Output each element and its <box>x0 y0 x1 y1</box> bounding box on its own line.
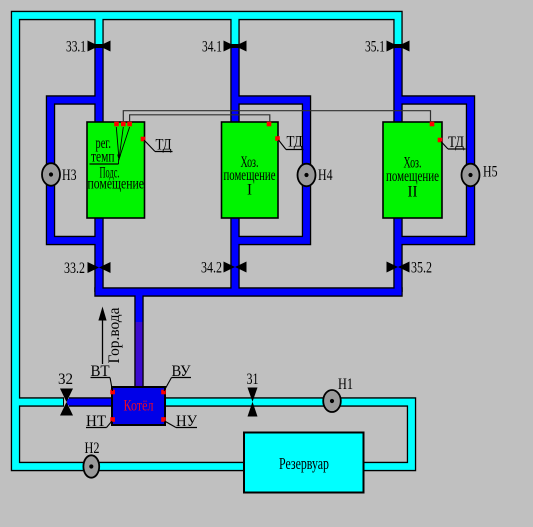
sensor label TD room 3 <box>441 134 466 151</box>
pump H3 <box>42 163 77 186</box>
svg-text:35.1: 35.1 <box>365 39 385 56</box>
pump H1 <box>323 376 353 412</box>
svg-text:32: 32 <box>58 371 73 388</box>
wire: main cyan supply pipe <box>16 16 399 467</box>
valve 35.1 <box>387 41 410 52</box>
svg-text:помещение: помещение <box>386 168 439 185</box>
cyan pipes fill <box>16 14 412 467</box>
wire outline: boiler feed connector <box>134 292 143 390</box>
wire: boiler feed upper blue <box>136 293 143 322</box>
wire outline: loop 2 <box>235 100 307 241</box>
label BU <box>164 363 191 391</box>
wire outline: branch 1 drop <box>94 16 103 47</box>
svg-text:Котёл: Котёл <box>124 398 154 415</box>
wire outline: loop 3 <box>398 100 471 241</box>
pump H2 <box>83 440 99 478</box>
blue pipes fill <box>51 48 471 402</box>
svg-text:I: I <box>247 182 252 199</box>
label HU <box>165 413 198 430</box>
svg-text:Гор.вода: Гор.вода <box>106 308 123 364</box>
svg-text:33.2: 33.2 <box>64 260 85 277</box>
svg-text:31: 31 <box>247 371 259 388</box>
wire outline: main cyan supply pipe run <box>16 16 399 467</box>
svg-text:33.1: 33.1 <box>66 39 86 56</box>
valve 34.1 <box>224 41 247 52</box>
svg-text:ТД: ТД <box>287 134 303 151</box>
wire outline: branch 1 return <box>94 46 103 292</box>
wire outline: valve32 to boiler <box>69 397 112 406</box>
pipe outlines (black pass) <box>16 16 471 467</box>
svg-text:ТД: ТД <box>156 137 172 154</box>
arrowhead of regulator pointer <box>117 155 121 162</box>
label HT <box>86 413 112 430</box>
wire: valve32 to boiler blue <box>67 399 113 406</box>
valve 34.2 <box>224 262 247 273</box>
wire: branch 2 cyan drop <box>232 14 239 44</box>
valve 31 (vertical) <box>248 388 258 417</box>
wire: boiler feed lower purple <box>136 322 143 389</box>
wire outline: valve 32 line <box>16 397 65 406</box>
sensor dots room 3 <box>430 122 443 143</box>
valve 32 (vertical) <box>60 389 73 416</box>
wire: loop 1 blue <box>51 100 102 241</box>
label BT <box>91 363 113 391</box>
wire outline: branch 2 return <box>230 46 239 292</box>
wire: valve 32 cyan line <box>16 399 64 406</box>
regulator fan arrows to sensors <box>116 127 129 164</box>
wire outline: branch 3 return <box>393 46 402 292</box>
wire outline: manifold <box>94 287 402 296</box>
svg-text:помещение: помещение <box>88 176 145 193</box>
hot water arrow <box>98 307 123 365</box>
svg-text:темп: темп <box>91 149 115 166</box>
svg-text:Н2: Н2 <box>85 440 100 457</box>
svg-text:Н3: Н3 <box>62 167 77 184</box>
boiler (Котёл) <box>112 387 165 425</box>
valve 33.2 <box>88 262 111 273</box>
svg-text:Резервуар: Резервуар <box>279 454 329 473</box>
sensor wire to room 3 <box>123 111 430 124</box>
wire: loop 2 blue <box>233 100 307 241</box>
reservoir (Резервуар) <box>244 433 364 493</box>
wire outline: loop 1 <box>51 100 100 241</box>
svg-text:II: II <box>408 184 418 201</box>
svg-text:Н4: Н4 <box>318 167 333 184</box>
pump H4 <box>298 164 333 187</box>
sensor dots room 2 <box>267 122 280 141</box>
pump H5 <box>462 164 498 187</box>
sensor label TD room 2 <box>279 134 304 151</box>
wire: loop 3 blue <box>396 100 471 241</box>
svg-text:ТД: ТД <box>448 134 464 151</box>
wire: boiler right cyan line <box>165 402 412 467</box>
wire: branch 1 blue return <box>96 48 103 294</box>
wire: branch 1 cyan drop <box>96 14 103 44</box>
room 2 box (Хоз помещение I) <box>222 122 279 218</box>
svg-text:35.2: 35.2 <box>411 260 432 277</box>
wire: branch 3 blue return <box>395 48 402 294</box>
room 3 box (Хоз помещение II) <box>383 122 442 218</box>
wire: manifold blue <box>96 289 402 296</box>
wire: branch 2 blue return <box>232 48 239 294</box>
room 1 box (Подс. помещение) <box>87 122 145 218</box>
valve 35.2 <box>387 262 410 273</box>
svg-text:34.1: 34.1 <box>202 39 222 56</box>
sensor label TD room 1 <box>144 137 173 154</box>
wire outline: boiler right line <box>165 402 412 467</box>
valve 33.1 <box>88 41 111 52</box>
svg-text:Н5: Н5 <box>483 164 498 181</box>
svg-text:34.2: 34.2 <box>201 260 222 277</box>
svg-text:Н1: Н1 <box>338 376 353 393</box>
wire outline: branch 2 drop <box>230 16 239 47</box>
sensor dots room 1 <box>114 122 145 142</box>
boiler corner dots <box>110 390 166 422</box>
sensor wire to room 2 <box>130 115 270 124</box>
